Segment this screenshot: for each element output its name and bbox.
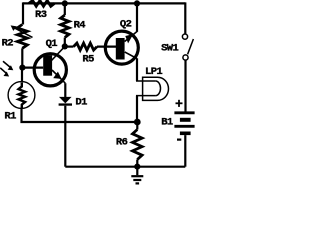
wire top rail <box>23 2 185 4</box>
lamp LP1 lower stub <box>136 95 156 97</box>
wire R6 bottom lead <box>136 160 138 167</box>
trimmer R2 arrow line <box>14 27 33 37</box>
ground bar 3 <box>136 182 140 184</box>
svg-text:R5: R5 <box>82 54 94 66</box>
resistor R5 zigzag <box>74 43 98 50</box>
wire R5 right lead to Q2 base bar <box>97 45 117 47</box>
ground bar 2 <box>133 179 141 181</box>
ground stub <box>136 167 138 176</box>
switch SW1 top terminal <box>182 34 187 39</box>
wire right rail top <box>184 2 186 33</box>
wire R4 top lead <box>64 3 66 15</box>
transistor Q2 circle <box>105 31 138 64</box>
resistor R6 zigzag <box>133 130 143 160</box>
ground bar 1 <box>131 175 143 177</box>
svg-text:R4: R4 <box>74 19 86 31</box>
svg-text:Q2: Q2 <box>120 18 132 30</box>
light arrow 1 <box>3 61 10 67</box>
Q2 top lead arrow <box>125 34 133 43</box>
resistor R2 (trimmer) zigzag <box>17 25 27 49</box>
node Q1 base junction <box>19 65 25 71</box>
Q1 emitter lead <box>52 70 65 83</box>
Q1 emitter arrow <box>53 72 61 79</box>
Q2 base bar <box>116 38 125 60</box>
svg-text:R6: R6 <box>116 136 128 148</box>
wire D1 bottom through horizontal down to lower rail <box>64 106 66 167</box>
wire junction down to R1 <box>21 68 23 82</box>
node R4 top junction <box>62 0 68 6</box>
Q1 base lead <box>22 66 43 68</box>
wire switch to battery <box>184 60 186 111</box>
svg-text:R3: R3 <box>35 9 47 21</box>
lamp LP1 envelope <box>143 77 169 100</box>
wire R6 top lead <box>136 122 138 130</box>
battery B1 plus sign <box>178 100 180 107</box>
Q2 bottom lead <box>125 52 137 59</box>
wire R5 left lead <box>65 45 74 47</box>
svg-text:D1: D1 <box>75 97 87 109</box>
Q1 base bar <box>43 55 52 75</box>
wire battery to lower rail <box>184 135 186 167</box>
photoresistor R1 circle <box>8 82 35 109</box>
node R6 top junction <box>134 119 141 126</box>
wire left rail upper (corner to R2 top) <box>22 2 24 24</box>
svg-text:R1: R1 <box>4 111 16 123</box>
light arrow 2 <box>0 68 6 73</box>
node Q2 collector top junction <box>134 0 140 6</box>
svg-text:R2: R2 <box>2 38 14 50</box>
wire R4 bottom lead <box>64 38 66 47</box>
Q1 collector lead <box>52 46 65 60</box>
node R6 bottom junction <box>134 164 140 170</box>
resistor R3 zigzag <box>29 1 55 7</box>
switch SW1 bottom terminal <box>183 55 188 60</box>
lamp LP1 upper stub <box>136 80 156 82</box>
wire R1 bottom corner to upper horizontal <box>22 108 139 122</box>
lamp LP1 filament arc <box>156 81 161 96</box>
wire R2 bottom to base junction <box>21 48 23 67</box>
battery plate 3 long <box>174 125 194 128</box>
transistor Q1 circle <box>34 54 66 86</box>
wire top rail to Q2 <box>136 3 138 32</box>
wire lamp bottom to R6 junction <box>136 96 138 123</box>
resistor R4 zigzag <box>61 15 69 38</box>
Q2 top lead (to rail) <box>125 32 137 42</box>
battery plate 1 long <box>174 111 194 114</box>
diode D1 triangle <box>59 97 72 104</box>
svg-text:B1: B1 <box>161 117 173 129</box>
diode D1 cathode bar <box>59 103 72 105</box>
battery plate 4 short <box>180 132 191 136</box>
wire lower rail <box>65 166 185 168</box>
svg-text:SW1: SW1 <box>161 42 178 54</box>
battery plate 2 short <box>180 118 191 122</box>
switch SW1 lever <box>188 39 194 54</box>
R1 inner zigzag <box>19 83 26 109</box>
wire Q2 bottom to lamp <box>136 58 138 81</box>
trimmer R2 arrowhead <box>11 25 17 31</box>
battery minus sign <box>177 139 181 141</box>
svg-text:Q1: Q1 <box>46 38 58 50</box>
node Q1 collector junction <box>62 43 68 49</box>
svg-text:LP1: LP1 <box>145 66 162 78</box>
wire Q1 emitter to D1 <box>64 83 66 97</box>
